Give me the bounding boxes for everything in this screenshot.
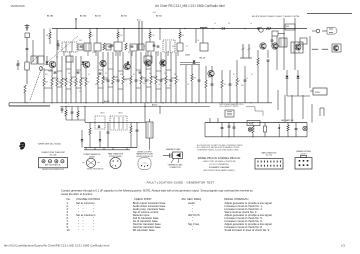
wire mesh links row1: [44, 69, 52, 71]
detector box T7: [177, 43, 183, 51]
svg-text:AT1B1: AT1B1: [47, 15, 54, 18]
svg-text:.04: .04: [158, 84, 160, 86]
oscillator trimmer box T2: [84, 43, 91, 51]
tuner connector pin 3: [55, 160, 58, 163]
resistor R8: [61, 56, 63, 78]
tuner connector pin 1: [42, 160, 45, 163]
audio input resistor R51: [77, 107, 79, 112]
capacitor C19: [170, 52, 172, 76]
svg-text:Air Chief PB C13J_MB C13J 1966: Air Chief PB C13J_MB C13J 1966 CarRadio.…: [155, 4, 225, 8]
capacitor C44 link: [99, 72, 102, 74]
svg-text:.05: .05: [250, 23, 252, 25]
dial lamp LP1: [248, 128, 252, 132]
resistor R27: [257, 50, 259, 58]
coupling box T4a: [130, 44, 137, 51]
volume control R26: [236, 60, 238, 78]
tuner connector pin 4: [61, 160, 64, 163]
svg-text:SCHEMATIC DIAGRAM: SCHEMATIC DIAGRAM: [209, 166, 230, 169]
svg-text:2N301: 2N301: [100, 113, 105, 115]
wire drops to socket row: [84, 149, 130, 151]
IF transformer T4 box: [114, 42, 122, 51]
wire right cluster link: [278, 33, 285, 35]
svg-text:1/3: 1/3: [341, 243, 345, 247]
capacitor C32: [295, 123, 297, 129]
capacitor C41 link: [54, 71, 57, 73]
svg-text:Sig. Freq.: Sig. Freq.: [188, 222, 200, 226]
choke L7: [264, 123, 266, 127]
main connector pins row 1: [257, 161, 259, 163]
resistor R2 aerial load: [49, 32, 51, 39]
resistor R31: [89, 122, 91, 128]
svg-text:SPKR: SPKR: [315, 92, 320, 94]
transistor TR2 1st IF: [83, 61, 90, 68]
svg-text:100: 100: [111, 83, 114, 85]
svg-text:20,000 OHMS/VOLT METER: 20,000 OHMS/VOLT METER: [219, 106, 239, 108]
speaker matching box: [313, 88, 327, 95]
svg-text:10K: 10K: [45, 74, 48, 76]
driver socket view: [138, 158, 151, 170]
svg-text:(No. 750): (No. 750): [266, 155, 273, 157]
driver transformer T12 can: [146, 122, 153, 138]
svg-text:462 KC/S: 462 KC/S: [188, 213, 200, 217]
diode D12: [127, 62, 130, 65]
resistor R25: [221, 70, 223, 80]
wire stub pair right: [319, 108, 321, 116]
capacitor C27: [107, 122, 109, 132]
junction dots extra: [75, 28, 76, 29]
svg-text:B+C: B+C: [137, 20, 142, 22]
diode D2 output: [297, 76, 300, 78]
padder capacitor C5: [80, 45, 83, 47]
final transistor socket view: [110, 157, 121, 168]
transistor TR1 converter: [49, 61, 56, 68]
svg-text:Small increase in level of che: Small increase in level of check No. 9.: [225, 228, 271, 232]
speaker socket body: [295, 158, 312, 169]
diode D10 detector: [46, 62, 49, 65]
wire output riser x277: [276, 36, 278, 70]
wire audio riser x145: [144, 103, 146, 122]
svg-text:15/06/2019: 15/06/2019: [11, 4, 25, 8]
svg-text:H02: H02: [153, 12, 156, 14]
svg-text:OTHERWISE STATED. K=1000 OHMS: OTHERWISE STATED. K=1000 OHMS M=MEG OHMS: [197, 148, 240, 151]
oscillator coil T1 dashed can: [62, 42, 77, 52]
coil L5: [312, 49, 318, 50]
power rail top: [205, 122, 307, 124]
svg-text:VIEWED FROM BELOW: VIEWED FROM BELOW: [136, 156, 153, 158]
wire output riser x284: [283, 18, 285, 70]
svg-text:DRIVER & OUTPUT: DRIVER & OUTPUT: [137, 151, 152, 153]
wire audio drops: [85, 148, 87, 151]
diode CR1 on rail: [222, 27, 225, 30]
small box right cluster B: [300, 38, 307, 44]
capacitor C42 link: [77, 71, 80, 73]
svg-text:680: 680: [157, 80, 160, 82]
plug P1 circle: [316, 29, 320, 33]
wire power rails ends: [204, 123, 206, 137]
svg-text:(12 VOLT OPERATION): (12 VOLT OPERATION): [209, 163, 229, 166]
capacitor C18: [160, 52, 162, 76]
capacitor C14: [107, 52, 109, 76]
capacitor C23: [267, 50, 269, 58]
oscillator box: [332, 44, 341, 52]
svg-text:.1: .1: [137, 80, 138, 82]
svg-text:IF1: IF1: [128, 52, 130, 54]
resistor R40 rail dropper: [89, 29, 91, 33]
svg-text:FAULT LOCATION GUIDE - G: FAULT LOCATION GUIDE - GENERATOR TEST: [147, 181, 215, 185]
svg-text:2.2K: 2.2K: [152, 35, 155, 37]
wire power entry: [209, 118, 211, 123]
svg-text:.05: .05: [59, 83, 61, 85]
transistor TR5 detector driver: [145, 60, 151, 66]
FM block box: [285, 24, 295, 30]
resistor R17: [122, 52, 124, 76]
oscillator pad box: [200, 43, 208, 51]
svg-text:No.: No.: [67, 197, 71, 201]
svg-text:AGC2: AGC2: [104, 100, 110, 103]
svg-text:CONNECTION: CONNECTION: [170, 167, 182, 169]
svg-text:5K: 5K: [147, 80, 149, 82]
resistor R6: [125, 43, 127, 50]
resistor R42 rail dropper: [149, 29, 151, 33]
capacitor C24: [271, 39, 274, 41]
svg-text:.1: .1: [126, 85, 127, 87]
wire output riser x310: [309, 36, 311, 88]
mixer coil T3 box: [94, 43, 101, 51]
svg-text:": ": [192, 229, 193, 232]
power transistor bottom view: [86, 158, 95, 167]
tuner connector body: [39, 158, 68, 168]
diode D1 output: [286, 76, 289, 78]
wire audio horizontal: [85, 121, 140, 123]
ground bus junction dots: [26, 102, 27, 103]
svg-text:1K: 1K: [88, 74, 90, 76]
resistor R43 rail dropper: [179, 29, 181, 33]
svg-text:": ": [83, 229, 84, 232]
coil L3 on rail: [200, 27, 207, 28]
neutralising circle: [39, 67, 43, 71]
wire output lower link: [287, 95, 310, 97]
svg-text:AGC1: AGC1: [152, 104, 158, 107]
svg-text:FUSE: FUSE: [249, 123, 253, 125]
capacitor C17: [145, 52, 147, 76]
trimmer box T15: [138, 44, 144, 50]
svg-text:CHECK POINT: CHECK POINT: [134, 197, 152, 201]
transistor TR7 audio driver: [208, 70, 214, 76]
resistor R5: [51, 68, 53, 78]
svg-text:VOLUME CONTROL: VOLUME CONTROL: [76, 197, 101, 201]
generator lead pointer lines: [171, 159, 174, 164]
coupling capacitor C50: [57, 43, 60, 45]
transistor TR6 AF: [160, 60, 166, 66]
wire riser x97: [96, 29, 98, 44]
wire audio lower bus: [84, 147, 137, 149]
tuning gang section G1: [242, 44, 244, 58]
resistor R30: [130, 122, 132, 126]
resistor R10: [70, 56, 72, 78]
svg-text:": ": [78, 229, 79, 232]
diode D11: [82, 62, 85, 65]
svg-text:4.7K: 4.7K: [120, 35, 123, 37]
output transformer T9: [291, 42, 303, 53]
driver transformer T10 dashed: [95, 116, 105, 129]
transistor TR4 IF amp: [124, 63, 130, 69]
svg-text:BK-3PS 2N408 2-2N408 2-5: BK-3PS 2N408 2-2N408 2-500KC 2-1600KC 2-…: [252, 16, 299, 18]
resistor R16: [112, 52, 114, 76]
audio input capacitor C53: [71, 107, 73, 113]
svg-text:.02: .02: [79, 91, 81, 93]
svg-text:VIEWED FROM WIRING SIDE: VIEWED FROM WIRING SIDE: [42, 169, 64, 171]
svg-text:.05: .05: [67, 82, 69, 84]
wire riser x203: [202, 29, 204, 44]
wire audio riser x85: [84, 107, 86, 123]
capacitor C28: [228, 123, 230, 127]
svg-text:CONNECTOR AT TUNER UNIT: CONNECTOR AT TUNER UNIT: [41, 151, 65, 154]
svg-text:(RECORDED FROM SAMPLE RADIO): (RECORDED FROM SAMPLE RADIO): [203, 169, 235, 172]
wire T12 bottom lead: [149, 138, 151, 150]
svg-text:.05: .05: [197, 40, 199, 42]
wire audio riser x160: [159, 107, 161, 115]
IF transformer T5 box: [146, 42, 154, 51]
svg-text:DET: DET: [172, 46, 175, 48]
tone control box: [225, 110, 234, 117]
diode D13: [162, 62, 165, 65]
diode D14 detector: [193, 61, 196, 64]
capacitor C25 near volume: [244, 66, 246, 80]
generator lead capacitor icon: [163, 155, 170, 157]
trimmer box T13: [78, 44, 83, 50]
wire mesh links row2: [52, 77, 57, 79]
wire riser x196: [195, 29, 197, 44]
coupling capacitor C51: [111, 44, 114, 46]
svg-text:MODEL PB-C13J & MODEL MB-C13J: MODEL PB-C13J & MODEL MB-C13J: [198, 157, 241, 160]
node B+ feed: [75, 19, 77, 29]
ground bus main: [9, 102, 272, 104]
resistor R14: [97, 52, 99, 76]
coil L6: [322, 49, 328, 50]
capacitor C45 audio input: [61, 107, 63, 110]
svg-text:RF transistor base: RF transistor base: [133, 228, 155, 232]
resistor R9: [65, 56, 67, 78]
svg-text:cause the AGC to function.: cause the AGC to function.: [61, 192, 93, 196]
svg-text:VIEWED FROM BELOW: VIEWED FROM BELOW: [87, 169, 104, 171]
RF coupling box left: [31, 56, 37, 64]
diode D5: [99, 139, 102, 141]
capacitor C21: [229, 70, 231, 84]
resistor R11: [75, 56, 77, 78]
wire step to lamp circuit: [246, 107, 263, 116]
svg-text:262KC: 262KC: [92, 52, 96, 54]
svg-text:1K: 1K: [114, 80, 116, 82]
svg-text:OSC: OSC: [79, 40, 82, 42]
resistor R23: [175, 52, 177, 76]
wire bus left segment: [180, 62, 200, 64]
svg-text:47K: 47K: [104, 80, 107, 82]
svg-text:39K: 39K: [167, 80, 170, 82]
resistor R20: [150, 52, 152, 76]
svg-text:470: 470: [208, 77, 211, 79]
svg-text:.05: .05: [187, 84, 189, 86]
svg-text:10.: 10.: [67, 228, 71, 232]
resistor R15: [102, 52, 104, 76]
svg-text:FM: FM: [286, 26, 289, 28]
wire riser x57: [56, 29, 58, 59]
svg-text:C4: C4: [46, 35, 48, 37]
capacitor C43 link: [139, 71, 142, 73]
wire left riser: [32, 40, 34, 62]
resistor R33: [252, 125, 254, 128]
capacitor C30 on rail: [257, 27, 259, 30]
capacitor C2: [26, 48, 29, 50]
resistor R29 mid: [191, 65, 193, 74]
svg-text:100: 100: [124, 80, 127, 82]
output transformer T11 dashed: [110, 116, 127, 130]
capacitor C31: [221, 123, 223, 128]
svg-text:AM. GEN. FREQ.: AM. GEN. FREQ.: [182, 197, 203, 201]
resistor R1: [24, 85, 26, 93]
transistor TR8: [260, 43, 266, 49]
svg-text:4.7K: 4.7K: [95, 84, 98, 86]
main connector pins row 2: [257, 165, 259, 167]
svg-text:.04: .04: [177, 80, 179, 82]
diode D4: [81, 139, 84, 141]
capacitor C26: [136, 122, 138, 130]
resistor R19: [140, 52, 142, 76]
audio input resistor R50: [65, 107, 67, 111]
resistor R22 on rail: [266, 28, 271, 30]
resistor R41 rail dropper: [117, 29, 119, 33]
power rail bottom: [205, 136, 307, 138]
coil L1 antenna: [25, 62, 29, 70]
fuse box F1: [247, 121, 260, 126]
svg-text:680: 680: [143, 83, 146, 85]
svg-text:1K: 1K: [92, 35, 94, 37]
svg-text:10K: 10K: [149, 73, 152, 75]
wire riser x160: [159, 29, 161, 41]
capacitor C16: [135, 52, 137, 76]
component ticks under can row: [63, 51, 65, 56]
svg-text:SIGNAL STRENGTH: SIGNAL STRENGTH: [224, 197, 249, 201]
resistor R24: [205, 66, 207, 80]
svg-text:33K: 33K: [174, 74, 177, 76]
capacitor C11: [157, 45, 160, 47]
svg-text:1K: 1K: [186, 46, 188, 48]
dial lamp LP2: [303, 126, 307, 130]
speaker socket pins: [299, 160, 301, 162]
tuning gang dashed link: [30, 67, 42, 100]
node rail junctions: [96, 28, 97, 29]
svg-text:10: 10: [233, 74, 235, 76]
resistor R18: [130, 52, 132, 76]
output transformer T8: [279, 38, 287, 47]
svg-text:1 2 3: 1 2 3: [143, 162, 147, 164]
svg-text:VOL: VOL: [241, 85, 244, 87]
svg-text:.02: .02: [87, 82, 89, 84]
svg-text:220: 220: [68, 73, 71, 75]
diode D6 spark plate: [278, 128, 280, 130]
svg-text:10: 10: [246, 78, 248, 80]
capacitor C7: [109, 45, 112, 47]
scan border rule top right: [307, 13, 352, 15]
resistor R4: [103, 43, 105, 50]
svg-text:AT3I4: AT3I4: [156, 15, 162, 18]
svg-text:10K: 10K: [45, 82, 48, 84]
svg-text:1K: 1K: [224, 84, 226, 86]
plug P1 shell: [327, 28, 337, 35]
IF transformer T6 dashed can: [163, 40, 175, 52]
resistor R13: [85, 68, 87, 78]
capacitor C22 mid: [198, 65, 200, 80]
trimmer box T14: [106, 44, 111, 50]
capacitor C9: [131, 45, 134, 47]
resistor R12: [80, 56, 82, 78]
antenna trimmer C1: [25, 33, 30, 38]
svg-text:12K: 12K: [193, 78, 196, 80]
svg-text:.05: .05: [105, 73, 107, 75]
ground bus lower left segment: [9, 105, 50, 107]
wire audio bus: [60, 106, 210, 108]
resistor R34: [287, 123, 289, 126]
wire riser x124: [123, 29, 125, 43]
main connector body: [255, 159, 283, 170]
svg-text:IF2: IF2: [155, 52, 157, 54]
svg-text:2N301: 2N301: [118, 113, 123, 115]
svg-text:39K: 39K: [120, 74, 123, 76]
coupling capacitor C52: [153, 44, 156, 46]
svg-text:2N408: 2N408: [185, 55, 190, 57]
svg-text:": ": [93, 229, 94, 232]
svg-text:L4: L4: [214, 23, 216, 25]
capacitor C29: [233, 123, 235, 128]
capacitor C15: [117, 52, 119, 76]
svg-text:(No. 148): (No. 148): [50, 155, 57, 157]
small box right cluster A: [272, 31, 278, 36]
wire output riser x295: [294, 18, 296, 70]
resistor R3: [43, 68, 45, 78]
bias box TR3: [144, 56, 152, 63]
RF coupling box left 2: [38, 56, 44, 64]
bias box TR2: [66, 56, 73, 62]
capacitor C20: [211, 66, 213, 84]
resistor R7: [56, 56, 58, 78]
antenna ANT: [26, 24, 28, 31]
wire mesh links row3: [44, 87, 52, 89]
svg-text:TR6-1A: TR6-1A: [199, 57, 206, 60]
diode D3 bias: [98, 126, 101, 128]
speaker socket tab: [301, 155, 307, 157]
B+ supply rail: [52, 28, 307, 30]
pointing hand symbol: [19, 142, 25, 150]
FM switch circle: [259, 28, 263, 32]
resistor R22: [165, 52, 167, 76]
resistor R21: [155, 52, 157, 76]
svg-text:AT3I3: AT3I3: [121, 15, 127, 18]
transistor TR11: [333, 45, 339, 51]
svg-text:.05: .05: [58, 46, 60, 48]
svg-text:CR: CR: [228, 23, 230, 25]
svg-text:5K: 5K: [133, 74, 135, 76]
wire audio link y120: [66, 119, 85, 121]
wire B+C pair: [138, 21, 140, 50]
svg-text:TUNER UNIT (No. 90035): TUNER UNIT (No. 90035): [38, 144, 62, 146]
svg-text:AT3I2: AT3I2: [95, 15, 101, 18]
tuner connector pin 2: [48, 160, 51, 163]
transistor TR3 2nd IF: [100, 60, 106, 66]
wire right column down: [284, 95, 286, 123]
svg-text:2.2K: 2.2K: [164, 73, 167, 75]
svg-text:560: 560: [182, 35, 185, 37]
wire antenna ground return: [8, 103, 10, 106]
wire riser x186 to bus: [185, 65, 187, 103]
